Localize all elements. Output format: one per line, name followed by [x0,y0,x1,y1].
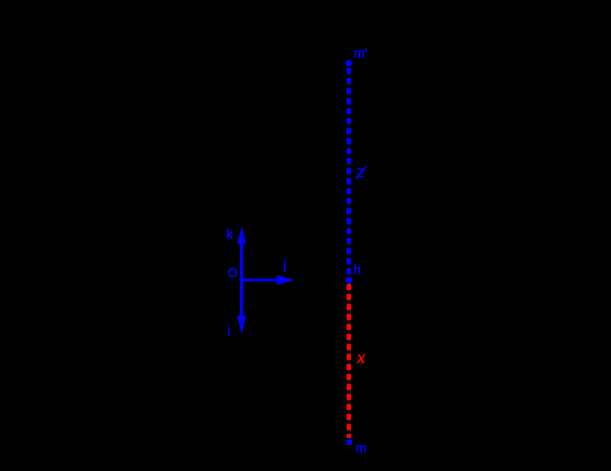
svg-text:m: m [356,441,367,456]
svg-text:k: k [226,227,233,242]
svg-text:j: j [282,257,286,272]
svg-text:O: O [228,265,238,280]
svg-text:x: x [356,350,366,367]
svg-text:h: h [354,262,361,277]
svg-text:m': m' [354,46,367,61]
svg-text:i: i [227,324,230,339]
